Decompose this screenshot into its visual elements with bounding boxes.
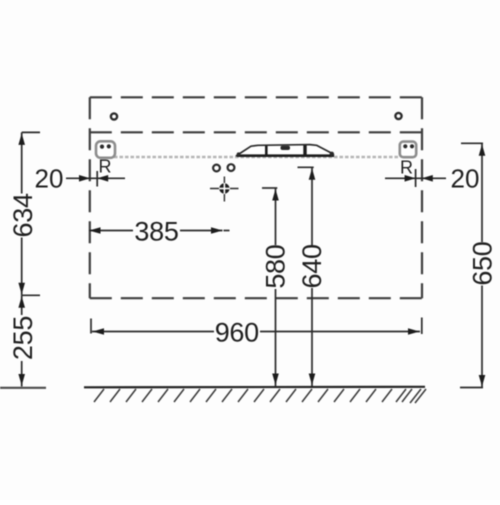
dimension 20 left: [66, 171, 125, 187]
drill point crosshair: [210, 177, 239, 202]
svg-text:20: 20: [35, 164, 64, 194]
mounting holes pair: [213, 165, 220, 172]
hanging rail dotted line: [114, 156, 400, 159]
dimension 650: [460, 143, 483, 387]
floor hatching: [94, 389, 426, 403]
cabinet top panel dashed line: [90, 131, 422, 133]
cabinet outline dashed rectangle: [90, 97, 422, 298]
svg-text:960: 960: [215, 318, 259, 348]
svg-text:20: 20: [451, 164, 480, 194]
svg-text:580: 580: [261, 245, 291, 289]
svg-text:R: R: [99, 157, 112, 177]
dimension 634: [22, 132, 40, 295]
dimension 255: [22, 295, 40, 386]
dimension 20 right: [385, 169, 446, 187]
svg-text:650: 650: [467, 242, 497, 286]
wall bracket left: [96, 141, 115, 158]
screw hole left: [111, 113, 117, 119]
dimension 960: [91, 318, 422, 335]
svg-text:R: R: [400, 158, 413, 178]
floor line left segment: [0, 387, 46, 389]
svg-text:640: 640: [297, 244, 327, 288]
svg-text:385: 385: [134, 217, 178, 247]
mounting rail profile: [237, 145, 335, 156]
wall bracket right: [400, 142, 416, 158]
screw hole right: [395, 113, 401, 119]
dimension 580: [262, 188, 277, 386]
dimension 640: [298, 167, 314, 386]
svg-text:255: 255: [8, 316, 38, 360]
floor line: [84, 386, 425, 389]
dimension 385: [89, 230, 230, 232]
svg-text:634: 634: [8, 193, 38, 237]
